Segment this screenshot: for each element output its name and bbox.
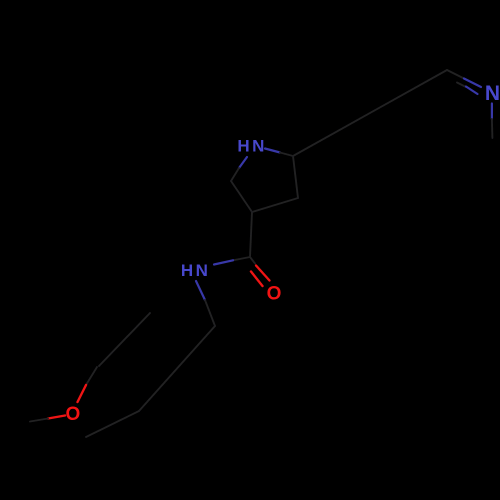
svg-text:O: O (66, 404, 81, 425)
wire O5-B gray half (86, 367, 97, 385)
wire O5-CH3 red half (48, 416, 65, 419)
wire Cam=O main red half (256, 266, 270, 281)
wire Cam=O main gray stub (250, 257, 255, 264)
wire Cam-N3 blue half (214, 260, 233, 264)
wire C=N main gray half (447, 70, 464, 79)
wire C=N inner gray half (457, 83, 466, 88)
wire O5-CH3 gray half (30, 419, 48, 422)
wire ring edge from A down-left (86, 411, 139, 437)
svg-text:HN: HN (237, 136, 267, 155)
wire N3-CH2 gray half (205, 300, 215, 326)
wire N3-CH2 blue half (196, 281, 205, 300)
wire Cam=O inner red line (251, 272, 263, 287)
wire N1-C5 blue half (239, 157, 247, 168)
wire N2 stub gray half (491, 119, 494, 138)
wire C=N inner blue half (466, 87, 478, 95)
wire C3-C4 (252, 198, 298, 212)
wire N2 stub blue half (491, 104, 493, 120)
wire ring edge from B up-right (99, 313, 150, 366)
wire C4-C5 (231, 181, 252, 212)
wire C2-pyridine long bond (293, 70, 447, 156)
wire CH2-chain long bond (139, 326, 215, 411)
wire N1-C2 blue half (265, 149, 280, 153)
wire C2-C3 (293, 156, 298, 198)
wire C4-Cam (250, 212, 252, 257)
wire C=N main blue half (464, 79, 481, 88)
svg-text:HN: HN (181, 261, 211, 280)
wire O5-B red half (78, 385, 87, 402)
svg-text:N: N (485, 82, 500, 105)
svg-text:O: O (267, 283, 282, 304)
wire N1-C2 gray half (280, 153, 293, 157)
wire Cam-N3 gray half (233, 257, 250, 260)
wire N1-C5 gray half (231, 168, 239, 181)
